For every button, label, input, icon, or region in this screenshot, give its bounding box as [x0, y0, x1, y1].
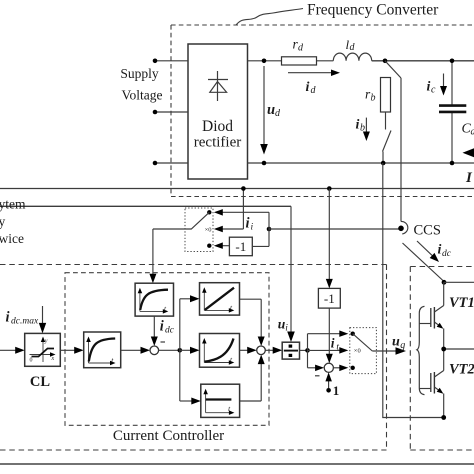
- svg-text:Frequency Converter: Frequency Converter: [307, 2, 439, 19]
- svg-text:-1: -1: [235, 239, 246, 254]
- svg-text:b: b: [360, 123, 365, 134]
- svg-text:CCS: CCS: [414, 223, 441, 239]
- svg-text:dc.max: dc.max: [11, 317, 39, 327]
- svg-text:g: g: [400, 340, 405, 351]
- svg-text:t: t: [336, 343, 339, 353]
- svg-text:VT2: VT2: [449, 362, 474, 378]
- svg-text:CL: CL: [30, 374, 50, 390]
- svg-text:y: y: [44, 339, 48, 345]
- svg-text:0: 0: [30, 358, 33, 364]
- svg-text:VT1: VT1: [449, 295, 474, 311]
- svg-text:i: i: [306, 80, 310, 95]
- svg-text:b: b: [371, 93, 376, 104]
- svg-text:-1: -1: [324, 291, 335, 306]
- svg-text:c: c: [431, 85, 436, 96]
- svg-text:×0: ×0: [354, 347, 361, 354]
- svg-text:u: u: [392, 335, 400, 350]
- svg-text:i: i: [6, 310, 10, 326]
- svg-text:×0: ×0: [205, 226, 212, 233]
- svg-text:Diod: Diod: [202, 118, 233, 135]
- svg-text:i: i: [285, 324, 288, 334]
- svg-text:x: x: [51, 356, 55, 362]
- svg-text:ytem: ytem: [0, 197, 26, 212]
- svg-text:i: i: [246, 216, 250, 232]
- svg-text:d: d: [471, 127, 474, 138]
- svg-text:dc: dc: [442, 249, 452, 259]
- svg-text:I: I: [465, 170, 473, 186]
- svg-text:Current Controller: Current Controller: [113, 428, 224, 444]
- svg-text:1: 1: [333, 383, 340, 398]
- svg-text:dc: dc: [165, 326, 175, 336]
- svg-text:y: y: [0, 214, 6, 229]
- svg-text:u: u: [267, 102, 275, 118]
- svg-text:i: i: [331, 336, 335, 351]
- svg-text:i: i: [427, 80, 431, 95]
- svg-text:i: i: [438, 243, 442, 258]
- svg-text:i: i: [160, 319, 164, 335]
- svg-text:Supply: Supply: [120, 66, 159, 81]
- svg-text:rectifier: rectifier: [194, 135, 241, 151]
- svg-text:Voltage: Voltage: [122, 88, 163, 103]
- svg-text:wice: wice: [0, 231, 24, 246]
- svg-text:i: i: [251, 223, 254, 233]
- svg-text:i: i: [356, 118, 360, 133]
